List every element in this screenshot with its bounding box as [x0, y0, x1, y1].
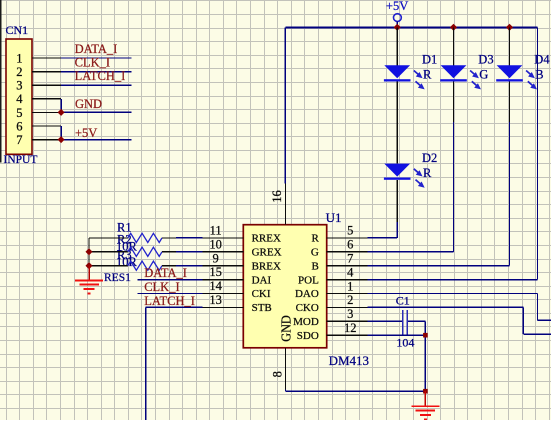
svg-text:9: 9 [212, 251, 218, 265]
svg-text:2: 2 [16, 65, 22, 79]
svg-text:G: G [311, 247, 319, 259]
svg-text:3: 3 [347, 307, 353, 321]
svg-text:CLK_I: CLK_I [144, 280, 179, 294]
svg-text:SDO: SDO [297, 330, 319, 342]
svg-text:G: G [479, 68, 488, 82]
svg-text:C1: C1 [396, 293, 410, 307]
svg-text:D1: D1 [422, 53, 437, 67]
svg-text:DATA_I: DATA_I [75, 42, 118, 56]
svg-text:15: 15 [209, 265, 222, 279]
svg-text:GND: GND [280, 315, 295, 342]
svg-text:U1: U1 [326, 210, 342, 225]
svg-text:CLK_I: CLK_I [75, 55, 110, 69]
svg-text:10: 10 [209, 237, 222, 251]
svg-text:7: 7 [16, 133, 22, 147]
svg-text:DAI: DAI [252, 274, 272, 286]
svg-text:16: 16 [270, 190, 284, 203]
svg-text:+5V: +5V [75, 126, 97, 140]
svg-text:D4: D4 [534, 53, 550, 67]
svg-text:STB: STB [252, 302, 272, 314]
svg-text:13: 13 [209, 293, 222, 307]
svg-text:6: 6 [16, 119, 22, 133]
svg-text:D2: D2 [422, 151, 437, 165]
svg-text:104: 104 [396, 335, 414, 349]
svg-text:GND: GND [75, 97, 102, 111]
svg-text:LATCH_I: LATCH_I [75, 69, 126, 83]
svg-text:R: R [423, 68, 432, 82]
svg-text:4: 4 [16, 92, 23, 106]
svg-text:CKO: CKO [296, 302, 319, 314]
svg-text:5: 5 [16, 106, 22, 120]
svg-text:R: R [423, 166, 432, 180]
svg-text:1: 1 [347, 279, 353, 293]
svg-text:POL: POL [298, 274, 319, 286]
svg-text:5: 5 [347, 224, 353, 238]
svg-text:GREX: GREX [252, 247, 282, 259]
svg-text:CKI: CKI [252, 288, 271, 300]
svg-text:3: 3 [16, 79, 22, 93]
svg-text:INPUT: INPUT [4, 154, 38, 166]
svg-text:1: 1 [16, 51, 22, 65]
svg-text:7: 7 [347, 252, 353, 266]
svg-text:B: B [311, 260, 318, 272]
svg-text:11: 11 [210, 224, 222, 238]
svg-text:MOD: MOD [293, 316, 319, 328]
svg-text:2: 2 [347, 293, 353, 307]
svg-text:+5V: +5V [386, 0, 408, 13]
svg-text:R: R [311, 233, 319, 245]
svg-text:D3: D3 [478, 53, 493, 67]
svg-text:6: 6 [347, 238, 353, 252]
svg-text:LATCH_I: LATCH_I [144, 294, 195, 308]
svg-text:DAO: DAO [295, 288, 319, 300]
svg-text:B: B [535, 68, 543, 82]
svg-text:8: 8 [271, 371, 285, 377]
svg-text:4: 4 [347, 265, 354, 279]
svg-text:14: 14 [209, 279, 222, 293]
svg-text:CN1: CN1 [6, 23, 29, 37]
svg-text:DM413: DM413 [329, 353, 369, 368]
svg-text:12: 12 [344, 321, 357, 335]
svg-text:DATA_I: DATA_I [144, 266, 187, 280]
svg-text:BREX: BREX [252, 260, 281, 272]
svg-text:RES1: RES1 [104, 272, 131, 284]
svg-text:RREX: RREX [252, 233, 281, 245]
